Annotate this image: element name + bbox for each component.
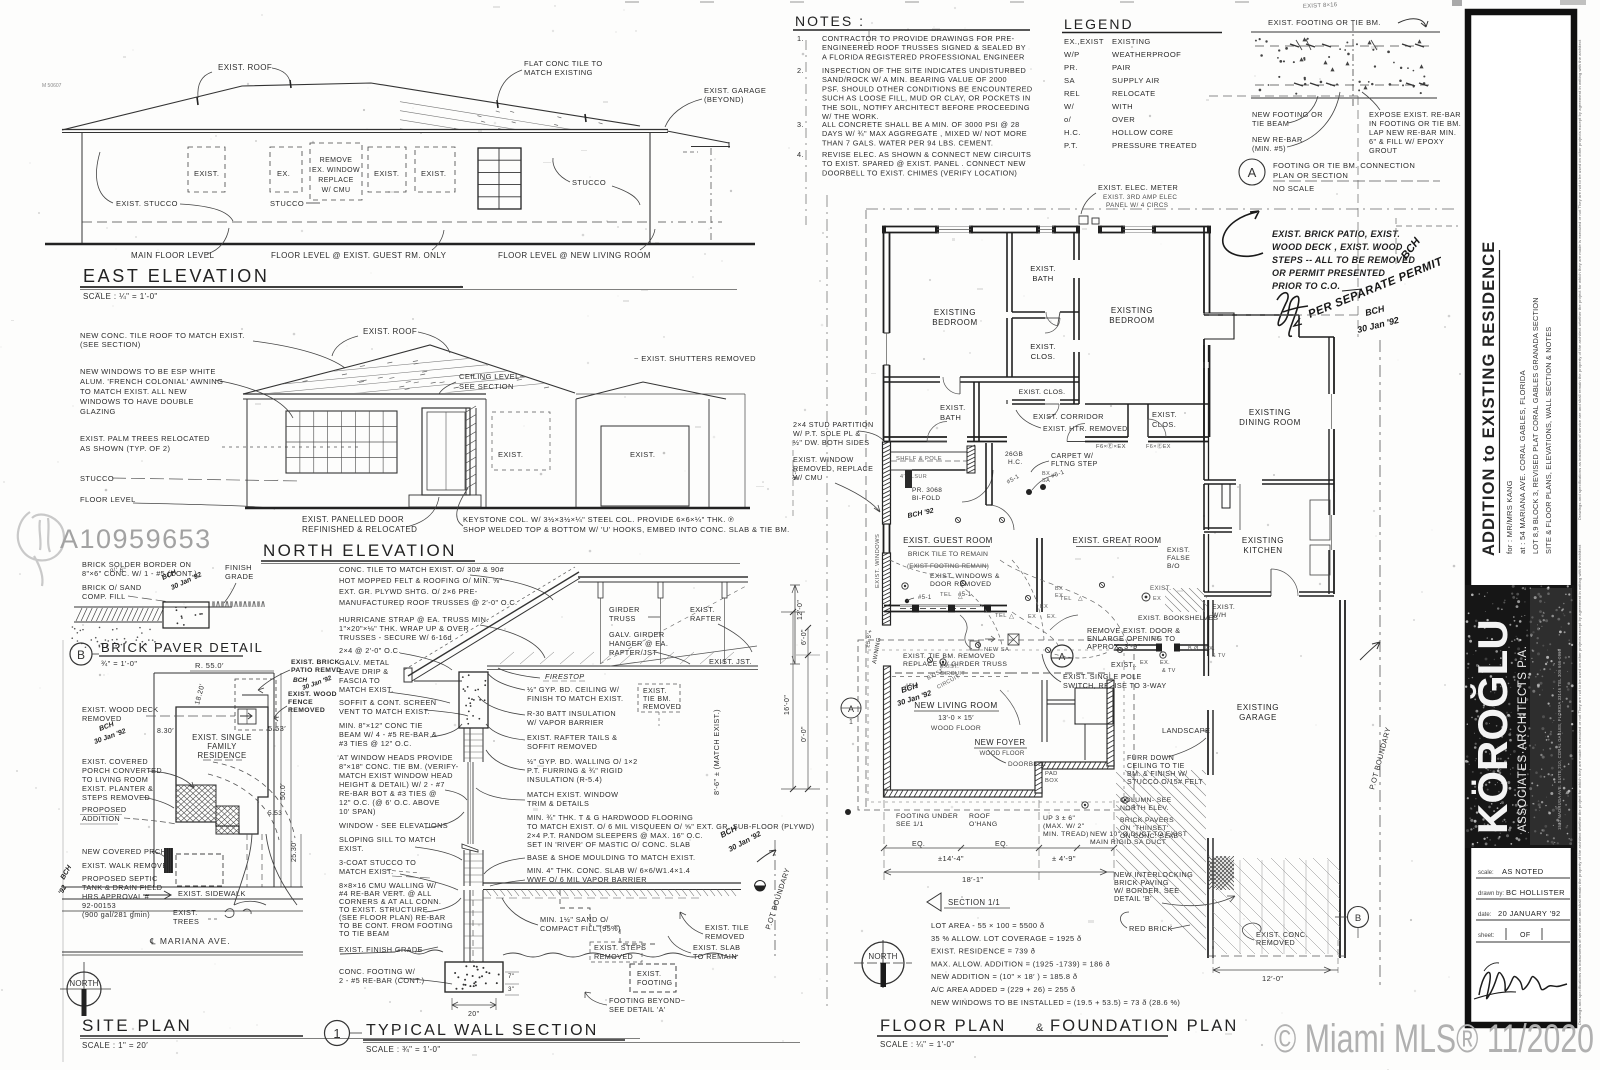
- svg-text:SUPPLY AIR: SUPPLY AIR: [1112, 76, 1160, 85]
- svg-text:W/ CMU: W/ CMU: [322, 187, 351, 194]
- svg-text:△: △: [1078, 596, 1083, 602]
- svg-text:WINDOW - SEE ELEVATIONS: WINDOW - SEE ELEVATIONS: [339, 821, 448, 830]
- svg-text:NORTH: NORTH: [868, 952, 897, 961]
- svg-text:EXIST. ELEC. METER: EXIST. ELEC. METER: [1098, 183, 1178, 192]
- svg-text:1.: 1.: [797, 34, 804, 43]
- svg-text:FASCIA TO: FASCIA TO: [339, 676, 380, 685]
- svg-text:EXISTING: EXISTING: [1111, 306, 1153, 315]
- svg-text:WOOD FLOOR: WOOD FLOOR: [931, 725, 981, 732]
- svg-text:FALSE: FALSE: [1167, 555, 1190, 562]
- svg-text:SEE DETAIL 'A': SEE DETAIL 'A': [609, 1005, 666, 1014]
- svg-text:SCALE : 1" = 20′: SCALE : 1" = 20′: [82, 1041, 148, 1050]
- svg-text:½" GYP. BD. CEILING W/: ½" GYP. BD. CEILING W/: [527, 685, 620, 694]
- svg-text:EXIST. WOOD DECK: EXIST. WOOD DECK: [82, 705, 159, 714]
- svg-text:TO MATCH EXIST. ALL NEW: TO MATCH EXIST. ALL NEW: [80, 387, 188, 396]
- svg-text:EXISTING: EXISTING: [1237, 703, 1279, 712]
- svg-text:scale:: scale:: [1478, 870, 1494, 876]
- svg-text:TREES: TREES: [173, 917, 199, 926]
- svg-text:3-COAT STUCCO TO: 3-COAT STUCCO TO: [339, 858, 416, 867]
- svg-text:FIRESTOP: FIRESTOP: [545, 672, 585, 681]
- svg-text:BRICK PAVER DETAIL: BRICK PAVER DETAIL: [101, 640, 263, 655]
- svg-text:TIE BEAM: TIE BEAM: [1252, 119, 1289, 128]
- svg-text:BI-FOLD: BI-FOLD: [912, 495, 940, 502]
- svg-text:LAP NEW RE-BAR MIN.: LAP NEW RE-BAR MIN.: [1369, 128, 1456, 137]
- svg-text:sheet:: sheet:: [1478, 933, 1495, 939]
- svg-text:SA: SA: [1042, 478, 1050, 484]
- svg-text:AS SHOWN (TYP. OF 2): AS SHOWN (TYP. OF 2): [80, 444, 170, 453]
- svg-text:FLOOR PLAN: FLOOR PLAN: [880, 1017, 1007, 1035]
- svg-text:P.T. FURRING & ¾" RIGID: P.T. FURRING & ¾" RIGID: [527, 766, 623, 775]
- svg-text:HOT MOPPED FELT & ROOFING O/ M: HOT MOPPED FELT & ROOFING O/ MIN. ⅝": [339, 576, 502, 585]
- svg-text:PROPOSED: PROPOSED: [82, 805, 127, 814]
- svg-text:GROUT: GROUT: [1369, 146, 1397, 155]
- svg-text:SEE 1/1: SEE 1/1: [896, 821, 924, 828]
- svg-text:EQ.: EQ.: [995, 841, 1008, 848]
- svg-text:REMOVED: REMOVED: [594, 952, 633, 961]
- svg-text:SCALE : ¼" = 1'-0": SCALE : ¼" = 1'-0": [83, 292, 158, 301]
- svg-text:EXIST. GREAT ROOM: EXIST. GREAT ROOM: [1072, 536, 1161, 545]
- svg-text:± 4′-9": ± 4′-9": [1052, 854, 1076, 863]
- svg-text:EXIST. CLOS.: EXIST. CLOS.: [1019, 389, 1066, 396]
- svg-text:OF: OF: [1520, 932, 1531, 939]
- svg-text:TO EXIST. SPARED @ EXIST. PANE: TO EXIST. SPARED @ EXIST. PANEL . CONNEC…: [822, 159, 1026, 168]
- svg-text:EXISTING: EXISTING: [1249, 408, 1291, 417]
- svg-text:TO LIVING ROOM: TO LIVING ROOM: [82, 775, 148, 784]
- svg-text:STUCCO O/15# FELT: STUCCO O/15# FELT: [1127, 779, 1203, 786]
- svg-text:W/ VAPOR BARRIER: W/ VAPOR BARRIER: [527, 718, 604, 727]
- svg-text:EXIST.: EXIST.: [1212, 604, 1235, 611]
- svg-text:NEW WINDOWS TO BE ESP WHITE: NEW WINDOWS TO BE ESP WHITE: [80, 367, 216, 376]
- svg-text:NEW LIVING ROOM: NEW LIVING ROOM: [914, 701, 997, 710]
- svg-text:REFINISHED & RELOCATED: REFINISHED & RELOCATED: [302, 525, 417, 534]
- svg-text:&: &: [1036, 1022, 1044, 1034]
- svg-text:at : 54 MARIANA AVE. CORAL: at : 54 MARIANA AVE. CORAL GABLES, FLORI…: [1518, 370, 1527, 554]
- svg-text:BRICK SOLDER BORDER ON: BRICK SOLDER BORDER ON: [82, 560, 191, 569]
- svg-text:EXIST. SINGLE: EXIST. SINGLE: [192, 733, 252, 742]
- svg-text:Drawings and specifications as: Drawings and specifications as instrumen…: [1577, 39, 1582, 520]
- svg-text:PATIO REMVD.: PATIO REMVD.: [291, 667, 344, 674]
- svg-text:STUCCO: STUCCO: [270, 199, 304, 208]
- svg-text:TRUSS: TRUSS: [609, 614, 636, 623]
- svg-text:FLAT CONC TILE TO: FLAT CONC TILE TO: [524, 59, 603, 68]
- svg-text:12" O.C. (@ 6′ O.C. ABOVE: 12" O.C. (@ 6′ O.C. ABOVE: [339, 798, 440, 807]
- svg-text:Drawings and specifications as: Drawings and specifications as instrumen…: [1577, 544, 1582, 1025]
- svg-text:FOUNDATION PLAN: FOUNDATION PLAN: [1050, 1017, 1239, 1035]
- svg-text:MATCH EXISTING: MATCH EXISTING: [524, 68, 593, 77]
- svg-text:EXPOSE EXIST. RE-BAR: EXPOSE EXIST. RE-BAR: [1369, 110, 1461, 119]
- svg-text:REMOVED, REPLACE: REMOVED, REPLACE: [793, 464, 873, 473]
- svg-text:R. 55.0′: R. 55.0′: [195, 661, 224, 670]
- svg-text:INSPECTION OF THE SITE INDICAT: INSPECTION OF THE SITE INDICATES UNDISTU…: [822, 66, 1026, 75]
- svg-text:PSF. SHOULD OTHER CONDITIONS: PSF. SHOULD OTHER CONDITIONS BE ENCOUNTE…: [822, 84, 1033, 93]
- svg-text:BRICK O/ SAND: BRICK O/ SAND: [82, 583, 142, 592]
- svg-text:EXIST.: EXIST.: [643, 688, 667, 695]
- svg-text:20 JANUARY '92: 20 JANUARY '92: [1498, 909, 1561, 918]
- svg-text:16′-0": 16′-0": [784, 695, 791, 715]
- svg-text:GALV. METAL: GALV. METAL: [339, 658, 390, 667]
- svg-text:3.: 3.: [797, 120, 804, 129]
- svg-text:VENT TO MATCH EXIST.: VENT TO MATCH EXIST.: [339, 707, 430, 716]
- svg-text:RE-BAR BOT & #3 TIES @: RE-BAR BOT & #3 TIES @: [339, 789, 437, 798]
- svg-text:△: △: [1009, 613, 1015, 620]
- svg-text:BEAM W/ 4 - #5 RE-BAR &: BEAM W/ 4 - #5 RE-BAR &: [339, 730, 437, 739]
- svg-text:EXIST.: EXIST.: [1030, 342, 1056, 351]
- svg-text:EXIST. ROOF: EXIST. ROOF: [363, 327, 417, 336]
- svg-text:DETAIL 'B': DETAIL 'B': [1114, 894, 1152, 903]
- svg-text:EXIST. COVERED: EXIST. COVERED: [82, 757, 148, 766]
- svg-text:FOOTING: FOOTING: [637, 978, 673, 987]
- svg-text:NEW FOOTING OR: NEW FOOTING OR: [1252, 110, 1323, 119]
- svg-text:EX: EX: [1040, 604, 1048, 610]
- svg-text:EXIST. BRICK PATIO, EXIST.: EXIST. BRICK PATIO, EXIST.: [1272, 229, 1400, 239]
- svg-text:EXIST.: EXIST.: [630, 450, 655, 459]
- svg-text:EX.: EX.: [277, 169, 290, 178]
- svg-text:EXIST. HTR. REMOVED: EXIST. HTR. REMOVED: [1043, 426, 1128, 433]
- svg-text:(EXIST FOOTING REMAIN): (EXIST FOOTING REMAIN): [907, 563, 989, 570]
- svg-text:EXIST.: EXIST.: [940, 403, 966, 412]
- svg-text:BOX: BOX: [1045, 778, 1058, 784]
- svg-text:THAN 7 GALS. WATER PER 94 LBS: THAN 7 GALS. WATER PER 94 LBS. CEMENT.: [822, 138, 993, 147]
- svg-text:SAND/ROCK W/ A MIN. BEARING VA: SAND/ROCK W/ A MIN. BEARING VALUE OF 200…: [822, 75, 1007, 84]
- svg-text:EXIST.: EXIST.: [374, 169, 399, 178]
- svg-text:HEIGHT & DETAIL) W/ 2 - #7: HEIGHT & DETAIL) W/ 2 - #7: [339, 780, 445, 789]
- svg-text:TO TIE BEAM: TO TIE BEAM: [339, 929, 389, 938]
- svg-text:STEPS REMOVED: STEPS REMOVED: [82, 793, 150, 802]
- svg-text:A10959653: A10959653: [60, 524, 212, 554]
- svg-text:8"×18" CONC. TIE BM. (VERIFY-: 8"×18" CONC. TIE BM. (VERIFY-: [339, 762, 459, 771]
- svg-text:SCALE : ¼" = 1′-0": SCALE : ¼" = 1′-0": [880, 1040, 955, 1049]
- svg-text:REPLACE: REPLACE: [318, 177, 353, 184]
- svg-text:STEPS -- ALL TO BE REMOVED: STEPS -- ALL TO BE REMOVED: [1272, 255, 1415, 265]
- svg-text:EXIST. BOOKSHELVES: EXIST. BOOKSHELVES: [1138, 615, 1218, 622]
- svg-text:KÖROĞLU: KÖROĞLU: [1469, 619, 1516, 834]
- svg-text:KITCHEN: KITCHEN: [1243, 546, 1282, 555]
- svg-text:CEILING LEVEL~: CEILING LEVEL~: [459, 372, 525, 381]
- svg-text:ROOF: ROOF: [969, 813, 990, 820]
- svg-text:MIN. 8"×12" CONC TIE: MIN. 8"×12" CONC TIE: [339, 721, 423, 730]
- svg-text:SWITCH, REVISE TO 3-WAY: SWITCH, REVISE TO 3-WAY: [1063, 681, 1167, 690]
- svg-text:KEYSTONE COL. W/ 3½×3½×¼" STEE: KEYSTONE COL. W/ 3½×3½×¼" STEEL COL. PRO…: [463, 515, 734, 524]
- svg-text:ADDITION to EXISTING RESIDENCE: ADDITION to EXISTING RESIDENCE: [1480, 241, 1498, 556]
- svg-text:¾" = 1'-0": ¾" = 1'-0": [101, 659, 137, 668]
- svg-text:FENCE: FENCE: [288, 699, 313, 706]
- svg-text:EXIST. PANELLED DOOR: EXIST. PANELLED DOOR: [302, 515, 404, 524]
- svg-text:A: A: [848, 704, 854, 714]
- svg-text:B: B: [77, 648, 85, 662]
- svg-text:TANK & DRAIN FIELD: TANK & DRAIN FIELD: [82, 883, 162, 892]
- svg-text:BEDROOM: BEDROOM: [932, 318, 978, 327]
- svg-text:WOOD DECK , EXIST. WOOD: WOOD DECK , EXIST. WOOD: [1272, 242, 1403, 252]
- svg-text:EAST ELEVATION: EAST ELEVATION: [83, 266, 269, 286]
- svg-text:½" DW. BOTH SIDES: ½" DW. BOTH SIDES: [793, 438, 869, 447]
- svg-text:WWF O/ 6 MIL VAPOR BARRIER: WWF O/ 6 MIL VAPOR BARRIER: [527, 875, 647, 884]
- svg-text:EXIST. PLANTER &: EXIST. PLANTER &: [82, 784, 153, 793]
- svg-text:B.Ø: B.Ø: [1188, 646, 1199, 652]
- svg-text:EX: EX: [1153, 596, 1161, 602]
- svg-text:WOOD FLOOR: WOOD FLOOR: [980, 750, 1025, 757]
- svg-text:MIN. TREAD): MIN. TREAD): [1043, 831, 1089, 838]
- svg-text:PRESSURE TREATED: PRESSURE TREATED: [1112, 141, 1197, 150]
- svg-text:STUCCO: STUCCO: [80, 474, 114, 483]
- svg-text:PRIOR TO C.O.: PRIOR TO C.O.: [1272, 281, 1340, 291]
- svg-text:2×4 @ 2′-0" O.C.: 2×4 @ 2′-0" O.C.: [339, 646, 401, 655]
- svg-text:½" GYP. BD. WALLING O/ 1×2: ½" GYP. BD. WALLING O/ 1×2: [527, 757, 638, 766]
- svg-text:#5-2: #5-2: [905, 684, 919, 690]
- svg-text:W/: W/: [1064, 102, 1075, 111]
- svg-text:2.: 2.: [797, 66, 804, 75]
- svg-text:MAIN RIGID SA DUCT: MAIN RIGID SA DUCT: [1090, 839, 1166, 846]
- svg-text:SET IN 'RIVER' OF MASTIC O/ CO: SET IN 'RIVER' OF MASTIC O/ CONC. SLAB: [527, 840, 690, 849]
- svg-text:EXIST. RAFTER TAILS &: EXIST. RAFTER TAILS &: [527, 733, 617, 742]
- svg-text:PR.: PR.: [1064, 63, 1078, 72]
- svg-text:PANEL W/ 4 CIRCS: PANEL W/ 4 CIRCS: [1106, 202, 1168, 209]
- svg-text:CONTRACTOR TO PROVIDE DRAWINGS: CONTRACTOR TO PROVIDE DRAWINGS FOR PRE-: [822, 34, 1015, 43]
- svg-text:EXIST.: EXIST.: [1150, 585, 1171, 592]
- svg-text:COMPACT FILL (95%): COMPACT FILL (95%): [540, 924, 621, 933]
- svg-text:1: 1: [849, 719, 853, 726]
- svg-text:NORTH ELEVATION: NORTH ELEVATION: [263, 541, 457, 560]
- svg-text:CEILING TO TIE: CEILING TO TIE: [1127, 763, 1185, 770]
- svg-text:NEW CONC. TILE ROOF TO MATCH E: NEW CONC. TILE ROOF TO MATCH EXIST.: [80, 331, 245, 340]
- svg-text:EXIST. FOOTING OR TIE BM.: EXIST. FOOTING OR TIE BM.: [1268, 18, 1381, 27]
- svg-text:BASE & SHOE MOULDING TO MATCH: BASE & SHOE MOULDING TO MATCH EXIST.: [527, 853, 695, 862]
- svg-text:PR. 3068: PR. 3068: [912, 487, 942, 494]
- svg-text:MATCH EXIST.: MATCH EXIST.: [339, 867, 394, 876]
- svg-text:92-00153: 92-00153: [82, 901, 116, 910]
- svg-text:3": 3": [508, 986, 514, 993]
- svg-text:SOFFIT REMOVED: SOFFIT REMOVED: [527, 742, 597, 751]
- svg-text:(BEYOND): (BEYOND): [704, 95, 744, 104]
- svg-text:HURRICANE STRAP @ EA. TRUSS MI: HURRICANE STRAP @ EA. TRUSS MIN.: [339, 615, 489, 624]
- svg-text:EXIST.: EXIST.: [194, 169, 219, 178]
- svg-text:ALUM. 'FRENCH COLONIAL' AWNING: ALUM. 'FRENCH COLONIAL' AWNING: [80, 377, 223, 386]
- svg-text:date:: date:: [1478, 912, 1492, 918]
- svg-text:BC HOLLISTER: BC HOLLISTER: [1506, 888, 1565, 897]
- svg-text:REVISE ELEC. AS SHOWN & CONNEC: REVISE ELEC. AS SHOWN & CONNECT NEW CIRC…: [822, 150, 1031, 159]
- svg-text:ASSOCIATES·ARCHITECTS P.A.: ASSOCIATES·ARCHITECTS P.A.: [1517, 646, 1529, 832]
- svg-text:EXIST. WOOD: EXIST. WOOD: [288, 691, 337, 698]
- svg-text:26GB: 26GB: [1005, 451, 1023, 458]
- svg-text:EXIST.: EXIST.: [1167, 547, 1190, 554]
- svg-text:MAX. ALLOW. ADDITION = (1925: MAX. ALLOW. ADDITION = (1925 -1739) = 18…: [931, 959, 1110, 968]
- svg-text:EXIST. SIDEWALK: EXIST. SIDEWALK: [178, 889, 246, 898]
- svg-text:HANGER @ EA.: HANGER @ EA.: [609, 639, 668, 648]
- svg-text:EXIST. PALM TREES RELOCATED: EXIST. PALM TREES RELOCATED: [80, 434, 210, 443]
- svg-text:RED BRICK: RED BRICK: [1129, 924, 1173, 933]
- svg-text:EXIST.: EXIST.: [498, 450, 523, 459]
- svg-text:drawn by:: drawn by:: [1478, 891, 1504, 897]
- svg-text:BX: BX: [1042, 471, 1050, 477]
- svg-text:o/: o/: [1064, 115, 1072, 124]
- svg-text:WEATHERPROOF: WEATHERPROOF: [1112, 50, 1181, 59]
- svg-text:R-30 BATT INSULATION: R-30 BATT INSULATION: [527, 709, 616, 718]
- svg-text:SLOPING SILL TO MATCH: SLOPING SILL TO MATCH: [339, 835, 436, 844]
- svg-text:B: B: [1355, 913, 1361, 924]
- svg-text:B/O: B/O: [1167, 563, 1180, 570]
- svg-text:TO REMAIN: TO REMAIN: [693, 952, 737, 961]
- svg-text:ENGINEERED ROOF TRUSSES SIGNED: ENGINEERED ROOF TRUSSES SIGNED & SEALED …: [822, 43, 1026, 52]
- svg-text:FINISH: FINISH: [225, 563, 252, 572]
- svg-text:THE SOIL, NOTIFY ARCHITECT BEF: THE SOIL, NOTIFY ARCHITECT BEFORE PROCEE…: [822, 103, 1030, 112]
- svg-text:EQ.: EQ.: [912, 841, 925, 848]
- svg-text:MIN. ¾" THK. T & G HARDWOOD FL: MIN. ¾" THK. T & G HARDWOOD FLOORING: [527, 813, 693, 822]
- svg-text:13′-0 × 15′: 13′-0 × 15′: [938, 715, 974, 722]
- svg-text:25.30′: 25.30′: [291, 840, 298, 862]
- svg-text:FOOTING OR TIE BM. CONNECTION: FOOTING OR TIE BM. CONNECTION: [1273, 161, 1415, 170]
- svg-text:EXIST.: EXIST.: [1030, 264, 1056, 273]
- svg-text:AT WINDOW HEADS PROVIDE: AT WINDOW HEADS PROVIDE: [339, 753, 453, 762]
- svg-text:MIN. 4" THK. CONC. SLAB W/ 6×6: MIN. 4" THK. CONC. SLAB W/ 6×6/W1.4×1.4: [527, 866, 690, 875]
- svg-text:STUCCO: STUCCO: [572, 178, 606, 187]
- svg-text:EX.: EX.: [1205, 646, 1215, 652]
- svg-text:EXIST.: EXIST.: [637, 969, 661, 978]
- svg-text:GIRDER: GIRDER: [609, 605, 640, 614]
- svg-text:5.53′: 5.53′: [268, 724, 286, 733]
- svg-text:FLOOR LEVEL @ EXIST. GUEST RM.: FLOOR LEVEL @ EXIST. GUEST RM. ONLY: [271, 251, 447, 260]
- svg-text:CLOS.: CLOS.: [1031, 352, 1056, 361]
- svg-text:UP 3 ± 6": UP 3 ± 6": [1043, 815, 1075, 822]
- svg-text:SCALE : ¾" = 1′-0": SCALE : ¾" = 1′-0": [366, 1045, 441, 1054]
- svg-text:WINDOWS TO HAVE DOUBLE: WINDOWS TO HAVE DOUBLE: [80, 397, 194, 406]
- svg-text:EXIST. STEPS: EXIST. STEPS: [594, 943, 646, 952]
- svg-text:±14′-4": ±14′-4": [938, 854, 964, 863]
- svg-text:EXT. GR. PLYWD SHTG. O/ 2×6 PR: EXT. GR. PLYWD SHTG. O/ 2×6 PRE-: [339, 587, 478, 596]
- svg-text:GLAZING: GLAZING: [80, 407, 116, 416]
- svg-text:SA: SA: [1064, 76, 1075, 85]
- svg-text:10′ SPAN): 10′ SPAN): [339, 807, 376, 816]
- svg-text:7": 7": [508, 973, 514, 980]
- svg-text:NEW RE-BAR: NEW RE-BAR: [1252, 135, 1303, 144]
- svg-text:SECTION 1/1: SECTION 1/1: [948, 898, 1000, 907]
- svg-text:FOOTING BEYOND~: FOOTING BEYOND~: [609, 996, 685, 1005]
- svg-text:~ EXIST. SHUTTERS REMOVED: ~ EXIST. SHUTTERS REMOVED: [634, 354, 756, 363]
- svg-text:EX: EX: [1028, 614, 1036, 620]
- svg-text:EXIST.: EXIST.: [421, 169, 446, 178]
- svg-text:EXIST. WINDOWS &: EXIST. WINDOWS &: [930, 573, 1000, 580]
- svg-text:EAVE DRIP &: EAVE DRIP &: [339, 667, 389, 676]
- svg-text:OVER: OVER: [1112, 115, 1135, 124]
- svg-text:EXIST. WALK REMOVED: EXIST. WALK REMOVED: [82, 861, 173, 870]
- svg-text:RESIDENCE: RESIDENCE: [197, 751, 246, 760]
- svg-text:EXIST. 3RD AMP ELEC: EXIST. 3RD AMP ELEC: [1103, 194, 1177, 201]
- svg-text:RAFTER/JST: RAFTER/JST: [609, 648, 657, 657]
- svg-text:MATCH EXIST.: MATCH EXIST.: [339, 685, 394, 694]
- svg-text:SITE PLAN: SITE PLAN: [82, 1016, 192, 1035]
- svg-text:EXIST.: EXIST.: [1152, 410, 1177, 419]
- svg-text:NORTH: NORTH: [69, 979, 98, 988]
- svg-text:EXIST. BRICK: EXIST. BRICK: [291, 659, 340, 666]
- svg-text:PAD: PAD: [1045, 771, 1058, 777]
- svg-text:6′-0": 6′-0": [801, 629, 808, 645]
- svg-text:(MIN. #5): (MIN. #5): [1252, 144, 1286, 153]
- svg-text:35 % ALLOW. LOT COVERAGE = 1: 35 % ALLOW. LOT COVERAGE = 1925 ð: [931, 934, 1081, 943]
- svg-text:MATCH EXIST. WINDOW: MATCH EXIST. WINDOW: [527, 790, 618, 799]
- svg-text:℄ MARIANA AVE.: ℄ MARIANA AVE.: [149, 936, 231, 946]
- svg-text:EXIST. ROOF: EXIST. ROOF: [218, 63, 272, 72]
- svg-text:SHOP WELDED TOP & BOTTOM W/ ': SHOP WELDED TOP & BOTTOM W/ 'U' HOOKS, E…: [463, 525, 790, 534]
- svg-text:12'-0": 12'-0": [797, 600, 804, 620]
- svg-text:TYPICAL WALL SECTION: TYPICAL WALL SECTION: [366, 1022, 598, 1039]
- svg-text:EX.,EXIST: EX.,EXIST: [1064, 37, 1104, 46]
- svg-text:2 - #5 RE-BAR (CONT.): 2 - #5 RE-BAR (CONT.): [339, 976, 424, 985]
- svg-text:2×4 STUD PARTITION: 2×4 STUD PARTITION: [793, 420, 874, 429]
- svg-text:BATH: BATH: [1032, 274, 1053, 283]
- svg-text:REMOVED: REMOVED: [705, 932, 745, 941]
- svg-text:SEE SECTION: SEE SECTION: [459, 382, 514, 391]
- svg-text:SOFFIT & CONT. SCREEN: SOFFIT & CONT. SCREEN: [339, 698, 436, 707]
- svg-text:RELOCATE: RELOCATE: [1112, 89, 1156, 98]
- svg-text:8.30′: 8.30′: [157, 728, 174, 735]
- svg-text:EXIST. TILE: EXIST. TILE: [705, 923, 749, 932]
- svg-text:OR PERMIT PRESENTED: OR PERMIT PRESENTED: [1272, 268, 1385, 278]
- svg-text:TRIM & DETAILS: TRIM & DETAILS: [527, 799, 589, 808]
- svg-text:EXIST. WINDOWS: EXIST. WINDOWS: [875, 534, 881, 588]
- svg-text:A: A: [1059, 652, 1066, 663]
- svg-text:LEGEND: LEGEND: [1064, 16, 1134, 32]
- svg-text:W/P: W/P: [1064, 50, 1080, 59]
- svg-text:TEL: TEL: [940, 592, 952, 598]
- svg-text:o¹′ 6": o¹′ 6": [110, 568, 126, 574]
- svg-text:O'HANG: O'HANG: [969, 821, 998, 828]
- svg-text:EXIST.: EXIST.: [173, 908, 198, 917]
- svg-text:AS NOTED: AS NOTED: [1502, 867, 1544, 876]
- svg-text:COMP. FILL: COMP. FILL: [82, 592, 126, 601]
- svg-text:EX.: EX.: [1047, 614, 1057, 620]
- svg-text:NEW FOYER: NEW FOYER: [975, 738, 1026, 747]
- svg-text:NEW SA: NEW SA: [984, 647, 1009, 653]
- svg-text:GALV. GIRDER: GALV. GIRDER: [609, 630, 665, 639]
- svg-text:for : MR/MRS KANG: for : MR/MRS KANG: [1505, 480, 1514, 554]
- svg-text:BEDROOM: BEDROOM: [1109, 316, 1155, 325]
- svg-text:50.0′: 50.0′: [280, 783, 287, 800]
- svg-text:PAIR: PAIR: [1112, 63, 1131, 72]
- svg-text:A FLORIDA REGISTERED PROFESSIO: A FLORIDA REGISTERED PROFESSIONAL ENGINE…: [822, 52, 1025, 61]
- svg-text:RAFTER: RAFTER: [690, 614, 722, 623]
- svg-text:EXIST. SLAB: EXIST. SLAB: [693, 943, 740, 952]
- svg-text:LANDSCAPE: LANDSCAPE: [1162, 726, 1210, 735]
- svg-text:EX.: EX.: [1152, 636, 1162, 642]
- svg-text:LOT 8,9 BLOCK 3, REVISED PLA: LOT 8,9 BLOCK 3, REVISED PLAT CORAL GABL…: [1531, 297, 1540, 554]
- svg-text:REMOVED: REMOVED: [82, 714, 122, 723]
- svg-text:TEL: TEL: [995, 613, 1007, 619]
- svg-text:H.C.: H.C.: [1064, 128, 1081, 137]
- svg-text:GARAGE: GARAGE: [1239, 713, 1277, 722]
- svg-text:EXIST. JST.: EXIST. JST.: [709, 657, 752, 666]
- svg-text:(SEE SECTION): (SEE SECTION): [80, 340, 141, 349]
- svg-text:ADDITION: ADDITION: [82, 814, 120, 823]
- svg-text:FLTNG STEP: FLTNG STEP: [1051, 461, 1098, 468]
- svg-text:BATH: BATH: [940, 413, 961, 422]
- svg-text:#5-1: #5-1: [918, 595, 932, 601]
- svg-text:REMOVE: REMOVE: [320, 157, 353, 164]
- svg-text:EXIST. GARAGE: EXIST. GARAGE: [704, 86, 766, 95]
- svg-text:M 50607: M 50607: [42, 83, 62, 89]
- svg-text:EXIST. CORRIDOR: EXIST. CORRIDOR: [1033, 412, 1104, 421]
- svg-text:EX. WINDOW: EX. WINDOW: [312, 167, 360, 174]
- svg-text:CIRCUIT: CIRCUIT: [940, 671, 965, 677]
- svg-text:(MAX. W/ 2": (MAX. W/ 2": [1043, 823, 1085, 830]
- svg-text:IN FOOTING OR TIE BM.: IN FOOTING OR TIE BM.: [1369, 119, 1461, 128]
- svg-text:NO SCALE: NO SCALE: [1273, 184, 1315, 193]
- svg-text:INSULATION (R-5.4): INSULATION (R-5.4): [527, 775, 602, 784]
- svg-text:TIE BM.: TIE BM.: [643, 696, 671, 703]
- svg-text:P.T.: P.T.: [1064, 141, 1078, 150]
- svg-text:REMOVED: REMOVED: [643, 704, 681, 711]
- svg-text:TRUSSES - SECURE W/ 6-16d: TRUSSES - SECURE W/ 6-16d: [339, 633, 452, 642]
- svg-text:BRICK PAVERS: BRICK PAVERS: [1120, 817, 1174, 824]
- svg-text:WITH: WITH: [1112, 102, 1133, 111]
- svg-text:1"×20"×⅛" THK. WRAP UP & OVER: 1"×20"×⅛" THK. WRAP UP & OVER: [339, 624, 469, 633]
